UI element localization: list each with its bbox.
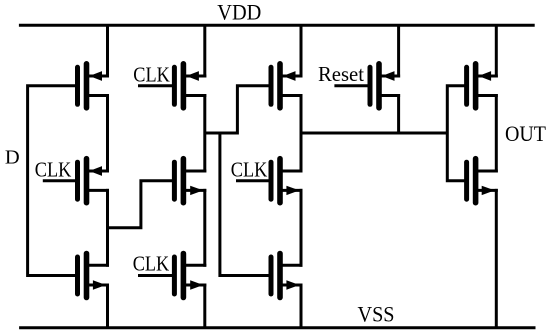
transistor M3 NMOS (D) [78, 254, 110, 298]
VDD rail [19, 24, 535, 27]
wire node B to output gates [447, 86, 466, 181]
transistor M6 NMOS (CLK) [174, 254, 206, 298]
wire CLK gate stub M6 [138, 274, 174, 277]
wire col1 M2 drain to M3 drain [106, 189, 109, 267]
wire col1 M1 drain to M2 source [106, 94, 109, 173]
node D input net [28, 86, 78, 276]
wire VSS drop col3 [300, 284, 303, 328]
svg-text:CLK: CLK [231, 158, 267, 182]
svg-text:CLK: CLK [133, 62, 170, 86]
wire col2 M4 drain through node A to M5 drain [203, 94, 206, 173]
svg-text:D: D [5, 147, 20, 169]
wire VSS drop col1 [106, 284, 109, 328]
wire VDD drop col4 [397, 25, 400, 77]
wire col3 M7 drain through node B to M8 drain [300, 94, 303, 173]
wire VDD drop col5 [495, 25, 498, 77]
wire CLK gate stub M4 [138, 84, 174, 87]
wire CLK gate stub M2 [43, 179, 78, 182]
wire VSS drop col2 [203, 284, 206, 328]
transistor M12 NMOS output [467, 159, 498, 203]
svg-text:Reset: Reset [318, 62, 364, 86]
transistor M8 NMOS (CLK) [271, 159, 303, 203]
node A to M9 gate [220, 132, 271, 276]
svg-text:VDD: VDD [217, 0, 261, 24]
svg-text:OUT: OUT [505, 122, 546, 146]
transistor M5 NMOS [174, 159, 206, 203]
VSS rail [19, 326, 535, 329]
transistor M10 PMOS (Reset) [370, 64, 400, 108]
wire output node M11 drain to M12 drain [495, 94, 498, 173]
transistor M4 PMOS (CLK) [174, 64, 206, 108]
wire col3 M8 source to M9 drain [300, 189, 303, 267]
node A to M7 gate [205, 86, 271, 133]
wire VDD drop col3 [300, 25, 303, 77]
transistor M9 NMOS [271, 254, 303, 298]
wire Reset PMOS drain to node B [397, 94, 400, 133]
node B wire [300, 132, 448, 135]
svg-text:CLK: CLK [35, 158, 72, 182]
wire output NMOS source to VSS [495, 189, 498, 328]
wire node X jog to M5 gate [106, 181, 174, 228]
transistor M11 PMOS output [467, 64, 498, 108]
wire CLK gate stub M8 [236, 179, 271, 182]
transistor M1 PMOS (D) [78, 64, 110, 108]
wire VDD drop col2 [203, 25, 206, 77]
wire VDD drop col1 [106, 25, 109, 77]
svg-text:VSS: VSS [358, 302, 395, 327]
wire col2 M5 source to M6 drain [203, 189, 206, 267]
transistor M7 PMOS [271, 64, 303, 108]
transistor M2 PMOS (CLK) [78, 159, 110, 203]
svg-text:CLK: CLK [133, 251, 170, 275]
wire Reset gate stub M10 [334, 84, 370, 87]
